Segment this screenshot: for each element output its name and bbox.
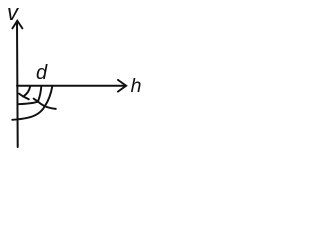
wire horizontal axis h [17, 85, 126, 87]
wire vertical axis v [16, 22, 19, 148]
outer angle arc [12, 86, 52, 120]
inner angle arc with arrowhead [23, 86, 30, 96]
up arrowhead of v axis [12, 21, 22, 29]
right arrowhead of h axis [118, 80, 126, 92]
label v [7, 2, 18, 24]
label d [36, 63, 47, 83]
middle angle arc with arrowhead and tail to v axis [18, 86, 41, 104]
axes diagram [0, 0, 178, 159]
label h [131, 77, 142, 97]
